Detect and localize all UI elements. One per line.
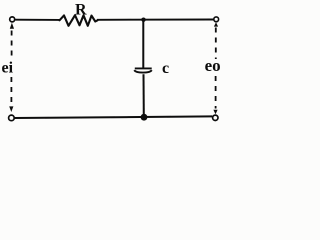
dashed measurement line right upper: [215, 28, 217, 60]
arrow: down arrowhead above bottom-left terminal: [9, 106, 13, 112]
arrow: up arrowhead under top-right terminal: [214, 22, 218, 26]
capacitor C bottom plate (curved): [134, 70, 152, 72]
wire: bottom rail: [14, 116, 212, 118]
capacitor C top lead: [142, 20, 144, 68]
svg-text:eo: eo: [205, 56, 221, 75]
resistor R1 zigzag: [60, 15, 98, 26]
svg-text:ei: ei: [2, 60, 14, 77]
arrow: down arrowhead above bottom-right terminal: [213, 110, 217, 114]
capacitor C bottom lead: [143, 74, 145, 117]
dashed measurement line left lower: [10, 77, 12, 105]
dashed measurement line left upper: [11, 31, 13, 59]
wire: resistor to top-right terminal (through node): [97, 19, 214, 21]
terminal: bottom-right output (open circle): [213, 115, 218, 120]
terminal: top-left input (open circle): [10, 17, 15, 22]
node: bottom junction dot: [141, 114, 148, 121]
capacitor C top plate: [135, 67, 152, 69]
svg-text:c: c: [162, 60, 169, 77]
wire: top-left terminal to resistor: [15, 19, 60, 21]
terminal: top-right output (open circle): [214, 17, 219, 22]
svg-text:R: R: [75, 2, 87, 19]
node: top junction dot: [141, 18, 145, 22]
terminal: bottom-left input (open circle): [9, 115, 15, 121]
dashed measurement line right lower: [215, 76, 217, 109]
paper background: [0, 0, 228, 128]
arrow: up arrowhead under top-left terminal: [10, 23, 14, 29]
